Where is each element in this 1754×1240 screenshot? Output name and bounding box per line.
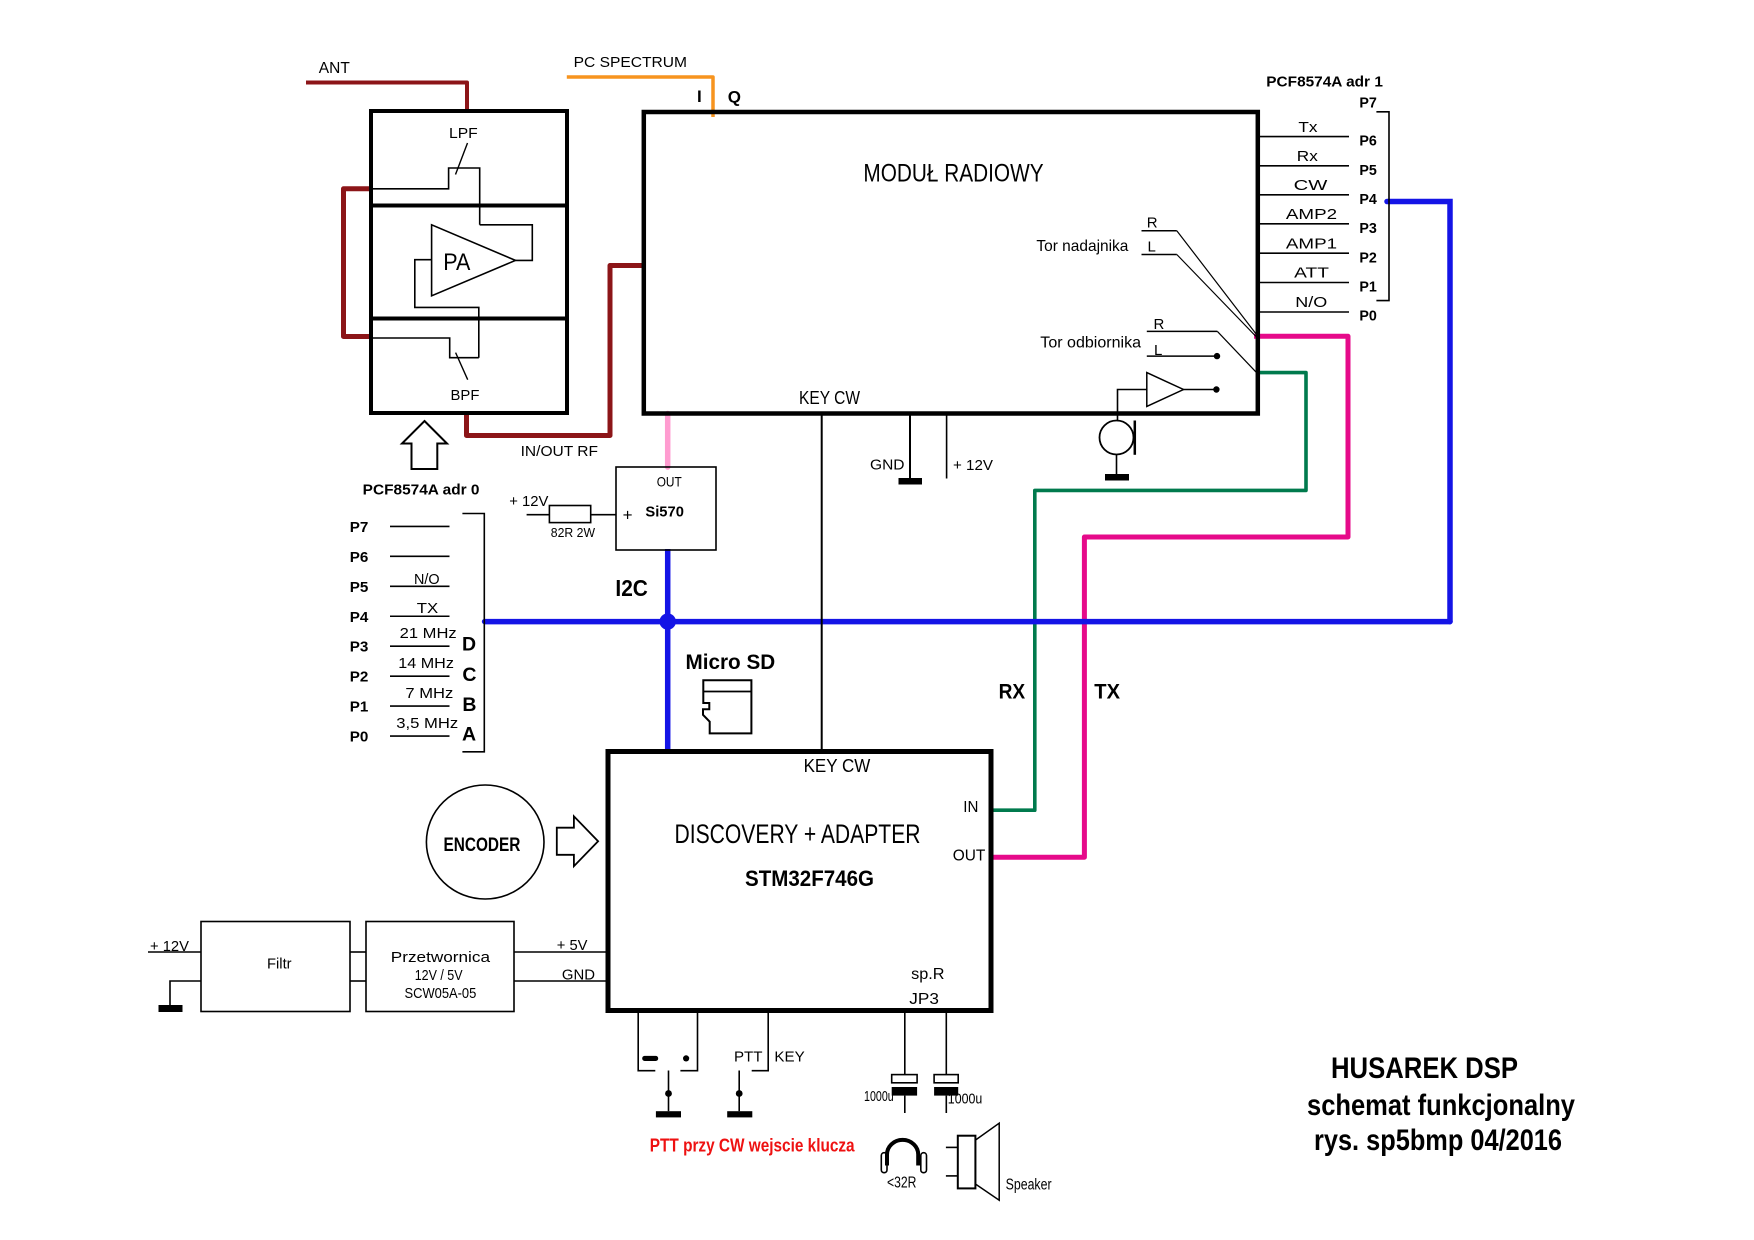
wire microphone to buffer — [1118, 390, 1147, 422]
box filter unit — [371, 111, 567, 413]
svg-text:P5: P5 — [350, 579, 369, 596]
svg-text:12V / 5V: 12V / 5V — [415, 967, 463, 984]
box Si570 — [616, 467, 716, 550]
capacitor C1 top plate — [892, 1075, 917, 1083]
ground GND bar — [899, 478, 923, 485]
pin line R (odbiornik) — [1147, 330, 1218, 332]
box Filtr — [201, 922, 350, 1012]
capacitor C1 bottom plate — [892, 1087, 917, 1096]
ground jack2 — [727, 1111, 752, 1117]
pin line P5 left — [390, 585, 450, 587]
svg-text:P4: P4 — [1359, 192, 1377, 208]
svg-text:P0: P0 — [350, 729, 369, 746]
svg-text:sp.R: sp.R — [911, 966, 944, 983]
svg-text:82R 2W: 82R 2W — [551, 525, 596, 540]
svg-text:DISCOVERY + ADAPTER: DISCOVERY + ADAPTER — [675, 819, 921, 849]
wire diagonal R odbiornik to edge — [1217, 331, 1256, 372]
svg-text:<32R: <32R — [887, 1175, 916, 1192]
svg-text:N/O: N/O — [414, 571, 440, 588]
wire I2C right riser (blue) — [1387, 202, 1450, 622]
node L dot — [1214, 353, 1220, 359]
svg-text:CW: CW — [1294, 177, 1329, 194]
svg-text:IN: IN — [963, 799, 978, 816]
svg-text:R: R — [1154, 316, 1165, 333]
wire IN/OUT RF (maroon) — [467, 266, 646, 436]
svg-text:PCF8574A adr 0: PCF8574A adr 0 — [363, 483, 480, 499]
speaker box — [958, 1136, 976, 1189]
microphone circle — [1100, 421, 1134, 455]
pin line N/O — [1258, 311, 1349, 313]
svg-text:+ 5V: + 5V — [557, 937, 588, 954]
microphone bar — [1134, 421, 1137, 455]
pin line Rx — [1258, 165, 1349, 167]
wire Filtr-Przetwornica bottom — [350, 980, 366, 982]
svg-text:Rx: Rx — [1297, 148, 1319, 165]
wire PC SPECTRUM (orange) — [567, 77, 713, 117]
svg-text:SCW05A-05: SCW05A-05 — [405, 985, 477, 1002]
wire +12V to resistor — [527, 514, 550, 516]
jack1 outline — [638, 1011, 697, 1071]
wire +5V — [514, 951, 608, 953]
svg-text:21 MHz: 21 MHz — [400, 625, 457, 642]
svg-text:JP3: JP3 — [909, 991, 939, 1008]
svg-text:1000u: 1000u — [948, 1091, 983, 1108]
svg-text:Tor odbiornika: Tor odbiornika — [1040, 334, 1141, 351]
capacitor C2 wire bottom — [945, 1096, 947, 1113]
svg-text:PCF8574A adr 1: PCF8574A adr 1 — [1266, 74, 1383, 90]
svg-text:PTT przy CW wejscie klucza: PTT przy CW wejscie klucza — [650, 1135, 856, 1155]
wire RX audio (green) — [993, 373, 1306, 811]
svg-text:Si570: Si570 — [645, 504, 684, 521]
ground jack1 — [656, 1111, 681, 1117]
svg-text:BPF: BPF — [451, 387, 480, 404]
pin line P0 left — [390, 735, 450, 737]
pin line AMP2 — [1258, 223, 1349, 225]
speaker input line top — [946, 1146, 958, 1148]
svg-text:ANT: ANT — [319, 60, 350, 77]
wire ANT (maroon) — [306, 83, 467, 114]
svg-text:+ 12V: + 12V — [953, 457, 993, 474]
svg-text:B: B — [462, 694, 476, 716]
jack1 sleeve dash — [642, 1056, 658, 1061]
svg-text:P4: P4 — [350, 609, 369, 626]
svg-text:PA: PA — [443, 249, 470, 276]
pin line P6 left — [390, 555, 450, 557]
switch LPF blade — [456, 143, 468, 175]
svg-text:P3: P3 — [350, 639, 369, 656]
svg-text:P6: P6 — [350, 549, 369, 566]
jack1 pin dot — [665, 1090, 672, 1097]
svg-text:P7: P7 — [350, 519, 369, 536]
svg-text:GND: GND — [562, 967, 595, 984]
headphones left pad — [881, 1153, 887, 1173]
bracket adr0 — [462, 514, 484, 752]
svg-text:rys. sp5bmp 04/2016: rys. sp5bmp 04/2016 — [1314, 1124, 1562, 1157]
pin GND wire — [909, 414, 911, 479]
capacitor C1 wire top — [904, 1011, 906, 1075]
bracket adr1 — [1376, 112, 1389, 301]
pin line R (nadajnik) — [1142, 230, 1177, 232]
pin line P7 left — [390, 525, 450, 527]
svg-text:R: R — [1147, 214, 1158, 231]
svg-text:+ 12V: + 12V — [509, 493, 548, 510]
node I2C junction (blue) — [660, 613, 676, 629]
svg-text:3,5 MHz: 3,5 MHz — [396, 715, 458, 732]
icon micro SD card — [703, 680, 751, 733]
wire I2C bus horizontal (blue) — [485, 619, 1450, 625]
pin line P1 left — [390, 705, 450, 707]
wire microphone to ground — [1116, 455, 1118, 475]
capacitor C2 wire top — [945, 1011, 947, 1075]
wire resistor to Si570 — [591, 514, 616, 516]
jack1 tip dot — [683, 1055, 689, 1061]
capacitor C2 bottom plate — [934, 1087, 958, 1096]
svg-text:C: C — [462, 664, 476, 686]
svg-text:STM32F746G: STM32F746G — [745, 866, 874, 891]
svg-text:Tor nadajnika: Tor nadajnika — [1036, 238, 1128, 255]
svg-text:TX: TX — [417, 600, 438, 617]
svg-text:Tx: Tx — [1298, 119, 1318, 136]
resistor 82R 2W — [549, 506, 590, 523]
svg-text:HUSAREK DSP: HUSAREK DSP — [1331, 1052, 1518, 1085]
wire KEY CW black — [821, 414, 823, 752]
wire Filtr gnd stub — [170, 981, 201, 1005]
speaker input line bottom — [946, 1175, 958, 1177]
jack1 pin wire — [668, 1071, 670, 1112]
pin line AMP1 — [1258, 252, 1349, 254]
svg-text:P7: P7 — [1359, 96, 1377, 112]
box Przetwornica — [366, 922, 514, 1012]
svg-text:N/O: N/O — [1295, 294, 1327, 311]
headphones right pad — [921, 1153, 927, 1173]
jack2 pin wire — [738, 1071, 740, 1112]
arrow band indicator — [402, 421, 447, 469]
capacitor C1 wire bottom — [904, 1096, 906, 1113]
arrow encoder to discovery — [557, 816, 598, 866]
pin line L (odbiornik) — [1147, 355, 1214, 357]
ground microphone — [1105, 474, 1129, 481]
svg-text:D: D — [462, 633, 476, 655]
svg-text:Filtr: Filtr — [267, 955, 292, 972]
svg-text:MODUŁ RADIOWY: MODUŁ RADIOWY — [863, 160, 1043, 188]
speaker horn — [975, 1123, 999, 1200]
svg-text:P2: P2 — [350, 669, 369, 686]
svg-text:P5: P5 — [1359, 163, 1377, 179]
box MODUL RADIOWY — [644, 112, 1258, 414]
op-amp PA triangle — [432, 225, 516, 296]
svg-text:P6: P6 — [1359, 134, 1377, 150]
wire I2C Si570 drop (blue) — [665, 549, 671, 752]
svg-text:RX: RX — [999, 681, 1026, 704]
svg-text:schemat funkcjonalny: schemat funkcjonalny — [1307, 1089, 1575, 1122]
svg-text:Przetwornica: Przetwornica — [391, 949, 491, 966]
pin line Tx — [1258, 136, 1349, 138]
svg-text:OUT: OUT — [657, 474, 682, 490]
pin line P2 left — [390, 675, 450, 677]
divider LPF/PA — [371, 204, 567, 208]
jack2 pin dot — [736, 1090, 743, 1097]
pin line ATT — [1258, 282, 1349, 284]
svg-text:7 MHz: 7 MHz — [405, 685, 453, 702]
pin +12V wire — [946, 414, 948, 479]
pin line P4 left — [390, 615, 450, 617]
wire diagonal L to edge — [1177, 255, 1257, 338]
svg-text:P2: P2 — [1359, 251, 1377, 267]
switch BPF blade — [456, 353, 468, 380]
wire LPF path — [371, 168, 480, 225]
wire Filtr-Przetwornica top — [350, 951, 366, 953]
wire PA output loop — [480, 225, 533, 261]
svg-text:KEY CW: KEY CW — [804, 756, 871, 776]
icon micro SD stripe — [703, 691, 751, 693]
svg-text:LPF: LPF — [449, 125, 478, 142]
svg-text:Speaker: Speaker — [1006, 1177, 1052, 1194]
svg-text:P3: P3 — [1359, 221, 1377, 237]
svg-text:P1: P1 — [350, 699, 369, 716]
svg-text:L: L — [1148, 239, 1156, 256]
wire LPF-BPF left loop (maroon) — [344, 189, 372, 337]
wire BPF path — [371, 338, 479, 358]
capacitor C2 top plate — [934, 1075, 958, 1083]
svg-text:PC SPECTRUM: PC SPECTRUM — [574, 55, 687, 71]
svg-text:KEY CW: KEY CW — [799, 388, 860, 408]
svg-text:Micro SD: Micro SD — [686, 650, 776, 674]
svg-text:AMP1: AMP1 — [1286, 235, 1337, 252]
svg-text:I2C: I2C — [615, 575, 648, 601]
wire Si570 OUT (pink) — [665, 414, 671, 468]
op-amp audio buffer — [1147, 373, 1184, 407]
pin line CW — [1258, 194, 1349, 196]
svg-text:I: I — [697, 87, 702, 106]
ground Filtr — [159, 1005, 183, 1012]
pin line P3 left — [390, 645, 450, 647]
svg-text:A: A — [462, 724, 476, 746]
box DISCOVERY — [608, 752, 991, 1011]
svg-text:KEY: KEY — [774, 1049, 804, 1066]
divider PA/BPF — [371, 317, 567, 321]
pin line L (nadajnik) — [1142, 254, 1177, 256]
svg-text:P1: P1 — [1359, 279, 1377, 295]
svg-text:GND: GND — [870, 457, 905, 474]
node buffer output dot — [1213, 386, 1219, 392]
svg-text:ENCODER: ENCODER — [444, 834, 521, 856]
wire diagonal R to edge — [1177, 231, 1257, 335]
svg-text:IN/OUT RF: IN/OUT RF — [521, 443, 598, 460]
headphones arc — [887, 1140, 918, 1166]
wire buffer output — [1184, 389, 1217, 391]
svg-text:1000u: 1000u — [864, 1088, 894, 1105]
svg-text:AMP2: AMP2 — [1286, 206, 1337, 223]
wire +12V to Filtr — [148, 951, 201, 953]
svg-text:P0: P0 — [1359, 309, 1377, 325]
wire PA input loop — [415, 260, 479, 358]
svg-text:OUT: OUT — [953, 847, 986, 864]
svg-text:14 MHz: 14 MHz — [398, 655, 454, 672]
svg-text:TX: TX — [1094, 681, 1120, 704]
wire GND przetwornica — [514, 980, 608, 982]
svg-text:ATT: ATT — [1294, 265, 1329, 282]
jack2 outline — [752, 1011, 769, 1071]
svg-text:PTT: PTT — [734, 1049, 763, 1066]
svg-text:Q: Q — [728, 88, 741, 107]
wire TX audio (magenta) — [993, 336, 1348, 857]
encoder circle — [426, 785, 544, 899]
svg-text:+: + — [623, 506, 633, 525]
